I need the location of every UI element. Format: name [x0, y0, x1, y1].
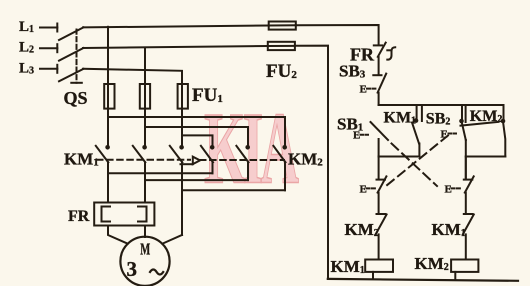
watermark KIA — [204, 91, 299, 205]
wire L1 bus — [83, 26, 269, 28]
contact KM2 NC interlock — [376, 214, 387, 260]
contact KM1 NC interlock — [463, 214, 474, 260]
motor 3~ label — [127, 257, 164, 281]
wire feeder L1 to KM2 pole3 — [108, 117, 285, 145]
contact KM2 NC label — [345, 220, 379, 239]
fuse FU1 label — [192, 85, 223, 106]
wire L1 lead — [40, 24, 57, 32]
svg-text:QS: QS — [64, 88, 88, 108]
svg-text:FU1: FU1 — [192, 85, 223, 106]
relay FR NC contact (control) — [374, 43, 386, 74]
wire motor node V — [145, 179, 248, 181]
contactor KM2 main pole 3 — [273, 145, 287, 190]
switch QS link dashed — [71, 30, 82, 83]
relay FR thermal hook — [387, 47, 395, 59]
contactor KM2 main pole 2 — [236, 145, 250, 180]
switch QS label — [64, 88, 88, 108]
wire L2 bus — [83, 46, 268, 48]
relay FR heater element 1 — [102, 207, 111, 222]
svg-text:KM1: KM1 — [64, 150, 99, 169]
relay FR heater element 2 — [138, 207, 147, 222]
switch QS pole 2 blade — [59, 48, 84, 61]
frame KM1 aux label — [384, 105, 419, 126]
wire feeder L2 to KM2 pole2 — [145, 127, 248, 145]
contactor KM1 main pole 1 — [96, 145, 110, 203]
wire FR to motor left — [108, 226, 128, 244]
button SB1 NC contact (right branch) — [464, 176, 474, 213]
actuator E left lower — [360, 183, 376, 195]
wire motor node U — [108, 172, 213, 174]
button SB3 NC contact — [373, 74, 386, 105]
mechanical link dashed KM1 — [97, 159, 190, 161]
node L3 label — [19, 61, 34, 77]
button SB1 label — [337, 115, 363, 134]
node line right — [466, 156, 506, 158]
control top bus — [379, 104, 504, 106]
relay FR label — [68, 208, 90, 225]
wire FR to motor mid — [144, 226, 146, 238]
svg-text:L2: L2 — [19, 40, 34, 56]
contact KM2 aux NO blade — [461, 122, 506, 157]
contactor KM2 main pole 1 — [201, 145, 215, 173]
button SB2 NO contact — [462, 123, 466, 180]
svg-text:3: 3 — [127, 257, 138, 281]
node line left — [379, 156, 420, 158]
svg-text:FU2: FU2 — [266, 61, 297, 82]
wire L3 lead — [40, 65, 57, 73]
wire L2 bus right of FU2 — [295, 46, 328, 279]
actuator E right lower — [445, 183, 462, 195]
svg-text:FR: FR — [68, 208, 90, 225]
frame SB2 label — [422, 105, 464, 128]
contact KM1 aux NO — [412, 123, 419, 157]
wire L2 drop to FU1 — [144, 48, 146, 85]
contactor KM1 main pole 3 — [170, 145, 184, 235]
button SB1 NO contact — [371, 122, 389, 157]
wire L1 bus right of FU2 — [296, 25, 379, 44]
wire right branch — [465, 157, 467, 180]
wire feeder L3 to KM2 pole1 — [182, 135, 213, 145]
button SB3 actuator E — [360, 84, 377, 96]
button SB2 actuator E — [441, 129, 457, 141]
svg-text:SB2: SB2 — [426, 111, 451, 128]
button SB2 NC contact (left branch) — [377, 176, 387, 213]
linkage dashed diagonal B — [386, 136, 448, 187]
svg-text:E: E — [360, 84, 367, 96]
mechanical link dashed KM2 — [200, 159, 284, 161]
svg-text:KM1: KM1 — [432, 220, 466, 239]
svg-text:KM2: KM2 — [345, 220, 379, 239]
wire L2 lead — [40, 44, 57, 52]
interlock triangle — [181, 157, 201, 165]
wire L3 bus — [83, 69, 182, 84]
coil KM1 label — [331, 257, 365, 276]
svg-text:E: E — [353, 130, 360, 142]
coil KM2 — [451, 260, 478, 281]
motor M circle — [120, 237, 169, 286]
svg-text:KM1: KM1 — [331, 257, 365, 276]
button SB3 label — [339, 62, 366, 81]
svg-text:KM2: KM2 — [415, 254, 449, 273]
wire motor node W — [182, 189, 285, 191]
switch QS pole 3 blade — [59, 69, 84, 82]
bottom bus — [328, 279, 518, 281]
fuse FU1 element 2 — [140, 84, 150, 145]
node L1 label — [19, 19, 34, 35]
switch QS pole 1 blade — [59, 27, 84, 40]
frame KM2 aux label — [466, 105, 506, 125]
button SB1 actuator E — [353, 130, 368, 142]
fuse FU1 element 1 — [104, 84, 114, 145]
fuse FU2 label — [266, 61, 297, 82]
fuse FU2 element 2 — [268, 42, 295, 50]
fuse FU1 element 3 — [178, 84, 188, 145]
motor M label — [140, 240, 150, 259]
relay FR heater box — [94, 203, 154, 226]
svg-text:M: M — [140, 240, 150, 259]
svg-text:L3: L3 — [19, 61, 34, 77]
contactor KM1 main pole 2 — [133, 145, 147, 203]
linkage dashed diagonal A — [392, 144, 438, 187]
svg-text:KM1: KM1 — [384, 109, 417, 126]
contactor KM2 main label — [288, 150, 323, 169]
fuse FU2 element 1 — [269, 22, 296, 30]
node L2 label — [19, 40, 34, 56]
coil KM1 — [365, 260, 393, 280]
contact KM1 NC label — [432, 220, 466, 239]
contactor KM1 main label — [64, 150, 99, 169]
relay FR control label — [350, 45, 375, 65]
coil KM2 label — [415, 254, 449, 273]
wire to motor right — [162, 235, 182, 244]
wire L1 drop to FU1 — [107, 27, 109, 84]
svg-text:KM2: KM2 — [288, 150, 323, 169]
wire left branch — [378, 157, 380, 180]
svg-text:L1: L1 — [19, 19, 34, 35]
